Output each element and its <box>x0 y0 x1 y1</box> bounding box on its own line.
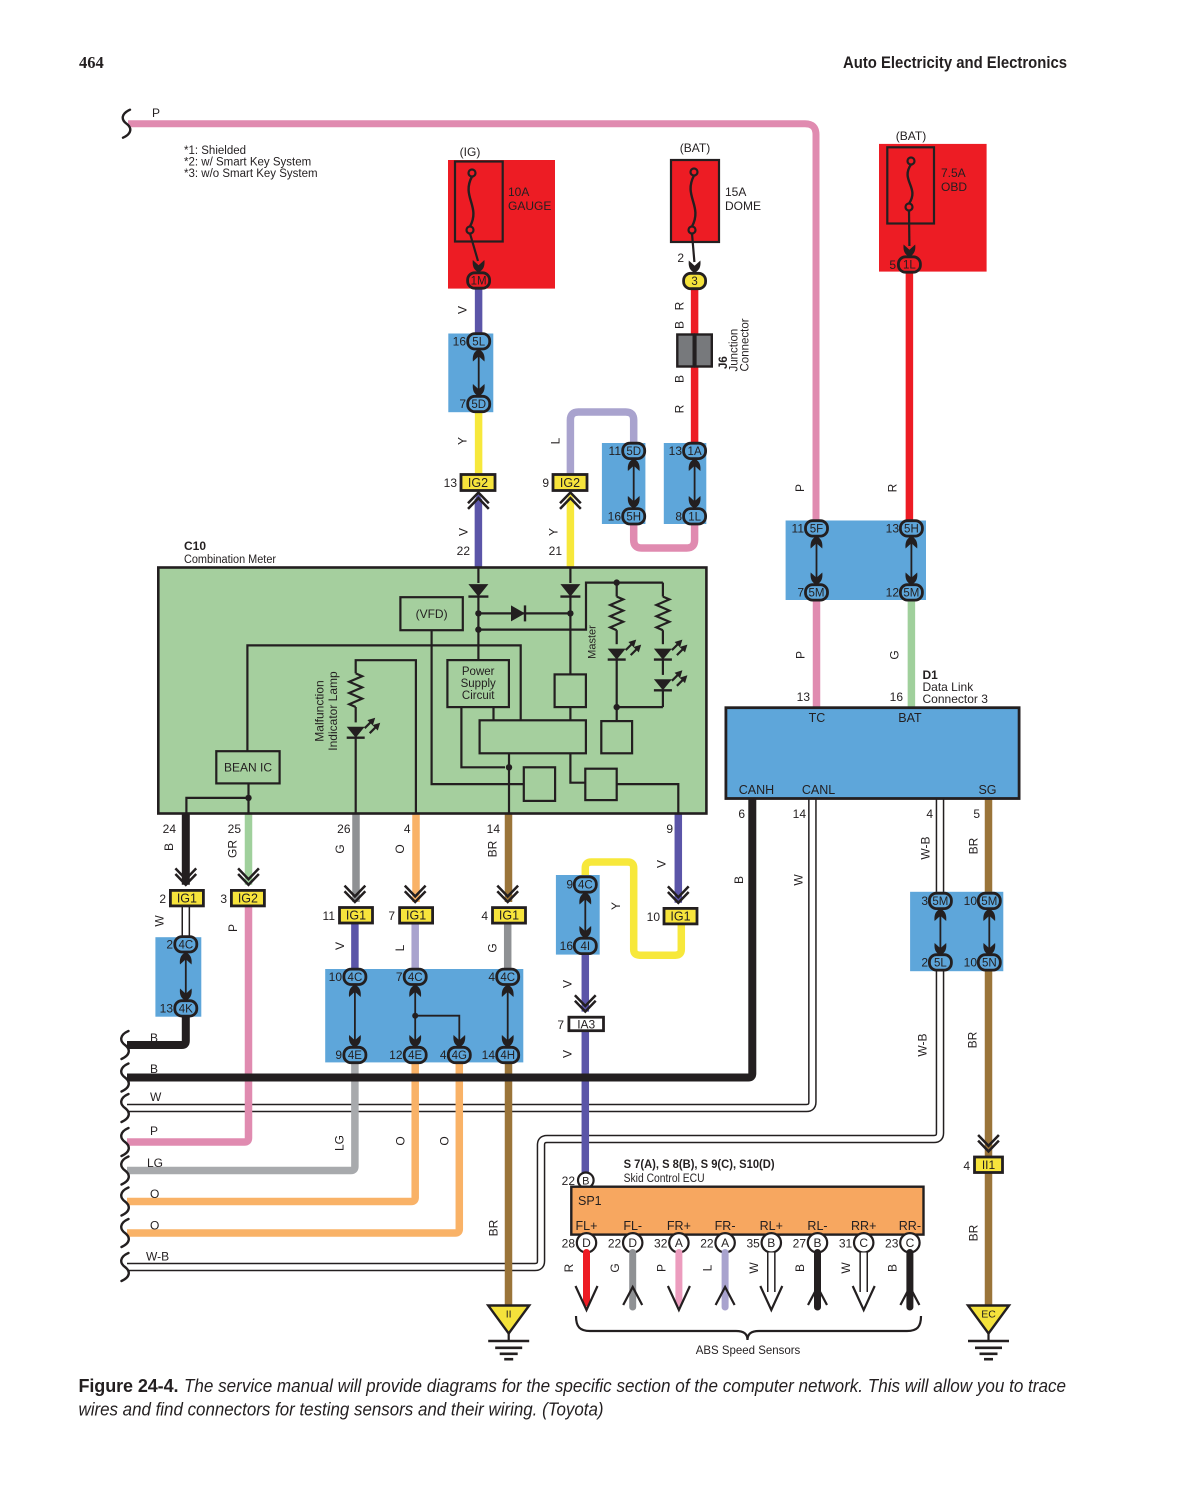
svg-text:BR: BR <box>966 1031 980 1048</box>
logic to sub block right leg <box>570 753 585 782</box>
svg-text:27: 27 <box>793 1237 807 1251</box>
node dot pin14 <box>506 764 512 770</box>
svg-text:P: P <box>226 924 240 932</box>
vfd feed wire <box>432 630 524 784</box>
ground triangle EC <box>968 1306 1009 1334</box>
svg-text:P: P <box>654 1264 668 1272</box>
svg-text:BR: BR <box>967 837 981 854</box>
svg-text:ABS Speed Sensors: ABS Speed Sensors <box>696 1343 801 1357</box>
connector oval 5L pin2 <box>929 955 951 970</box>
node dot pin22 rail upper <box>475 610 481 616</box>
svg-text:G: G <box>486 943 500 952</box>
wire BR SG to ground EC <box>985 799 993 1307</box>
svg-text:TC: TC <box>809 711 826 725</box>
svg-text:9: 9 <box>335 1048 342 1062</box>
svg-text:5D: 5D <box>626 446 641 458</box>
svg-text:26: 26 <box>337 822 351 836</box>
chevron into II1 <box>978 1135 999 1151</box>
svg-text:W-B: W-B <box>919 836 933 859</box>
wire L IG2-9 to 5D-11 <box>570 412 633 475</box>
svg-text:1M: 1M <box>471 276 487 288</box>
svg-text:5D: 5D <box>471 399 486 411</box>
chevron into IG1-2 <box>175 868 196 884</box>
mil resistor <box>349 673 362 707</box>
svg-text:(BAT): (BAT) <box>680 141 710 155</box>
svg-text:10: 10 <box>964 956 978 970</box>
svg-text:3: 3 <box>691 276 697 288</box>
psc left leg <box>461 707 505 767</box>
fuse block (BAT) 7.5A OBD <box>879 144 987 272</box>
connector box 5M-5L 5M-5N (blue) <box>910 892 1003 971</box>
junction box IG1 pin4 <box>493 908 526 924</box>
wire V IG1-11 to 4C-10 <box>351 922 359 970</box>
svg-text:BR: BR <box>967 1224 981 1241</box>
wire V IA3-7 to skid ECU B-22 <box>582 1031 590 1173</box>
connector oval 1A pin13 <box>684 443 706 458</box>
connector oval 5L pin16 <box>468 334 490 349</box>
wire V IG2-13 to meter pin 22 <box>475 499 483 568</box>
connector oval 1L pin8 <box>684 509 706 524</box>
svg-text:S 7(A), S 8(B), S 9(C), S10(D): S 7(A), S 8(B), S 9(C), S10(D) <box>624 1159 775 1171</box>
terminal arrow into 1M <box>473 260 485 273</box>
connector oval 5N pin10 <box>978 955 1000 970</box>
svg-text:Master: Master <box>587 625 599 659</box>
svg-text:11: 11 <box>792 522 805 536</box>
connector oval 5M pin12 <box>900 585 922 600</box>
junction oval 3 (yellow) <box>684 273 706 288</box>
connector oval 4K pin13 <box>175 1001 197 1016</box>
svg-text:Y: Y <box>609 902 623 910</box>
svg-text:IG2: IG2 <box>560 476 580 490</box>
svg-text:GAUGE: GAUGE <box>508 199 551 213</box>
chevron into IG1-11 <box>345 886 366 902</box>
junction box IG2 pin9 <box>553 475 587 491</box>
wire V 4I-16 to IA3-7 <box>582 953 590 1012</box>
svg-text:C: C <box>859 1236 868 1250</box>
svg-text:(BAT): (BAT) <box>896 129 926 143</box>
svg-text:B: B <box>673 321 687 329</box>
svg-text:BR: BR <box>487 1219 501 1236</box>
wire R obd fuse 1L to 5H-13 <box>906 271 914 522</box>
svg-text:3: 3 <box>220 892 227 906</box>
svg-text:V: V <box>655 860 669 868</box>
svg-text:W: W <box>792 874 806 886</box>
svg-text:5L: 5L <box>472 336 485 348</box>
svg-text:BAT: BAT <box>898 711 922 725</box>
junction box IA3 pin7 <box>569 1017 604 1030</box>
junction box IG1 pin7 <box>400 908 433 924</box>
svg-text:W-B: W-B <box>146 1250 169 1264</box>
chevron into IG1-4 <box>497 886 518 902</box>
chevron into IG2-3 <box>238 868 259 884</box>
connector oval 5M pin3 <box>929 893 951 908</box>
svg-text:2: 2 <box>166 938 173 952</box>
meter internal wire pin21 branch <box>569 568 571 584</box>
master resistor right <box>662 583 664 597</box>
svg-text:B: B <box>767 1236 775 1250</box>
chevron into IG2-9 <box>560 493 581 509</box>
svg-text:Combination Meter: Combination Meter <box>184 554 276 566</box>
psc right leg <box>492 707 494 720</box>
master LED right lower <box>654 679 672 690</box>
svg-text:7: 7 <box>396 970 403 984</box>
svg-text:IG2: IG2 <box>468 476 488 490</box>
svg-text:CANL: CANL <box>802 783 835 797</box>
svg-text:4: 4 <box>404 822 411 836</box>
connector box 5F-5M 5H-5M (blue) <box>786 521 926 601</box>
svg-text:(IG): (IG) <box>460 145 481 159</box>
connector oval 5F pin11 <box>806 521 828 536</box>
svg-text:SG: SG <box>978 783 996 797</box>
connector oval 5M pin7 <box>806 585 828 600</box>
svg-text:B: B <box>793 1264 807 1272</box>
junction box IG2 pin13 <box>461 475 495 491</box>
main logic block <box>480 720 586 753</box>
svg-text:11: 11 <box>323 909 336 923</box>
svg-text:O: O <box>150 1187 159 1201</box>
svg-text:G: G <box>333 844 347 853</box>
svg-text:Malfunction: Malfunction <box>313 680 327 741</box>
svg-text:B: B <box>162 843 176 851</box>
connector oval 4E pin12 <box>404 1047 426 1062</box>
connector oval 5H pin16 <box>623 509 645 524</box>
ground symbol II <box>488 1340 529 1343</box>
connector oval 4I pin16 <box>574 938 596 953</box>
svg-text:5H: 5H <box>626 511 641 523</box>
connector box 5D-5H (blue) <box>602 443 646 524</box>
svg-text:A: A <box>675 1236 683 1250</box>
svg-text:Supply: Supply <box>461 678 496 690</box>
node dot pin21 rail <box>567 610 573 616</box>
svg-text:R: R <box>673 301 687 310</box>
chevron into IG2-13 <box>468 493 489 509</box>
svg-text:LG: LG <box>147 1156 163 1170</box>
svg-text:RL+: RL+ <box>760 1219 783 1233</box>
svg-text:Y: Y <box>456 437 470 445</box>
svg-text:O: O <box>393 844 407 853</box>
svg-text:IA3: IA3 <box>577 1017 595 1031</box>
wire BR 4H-14 down to ground II <box>505 1061 513 1306</box>
svg-text:13: 13 <box>669 444 683 458</box>
wire P IG2-3 down to left bus <box>127 905 249 1142</box>
svg-text:23: 23 <box>885 1237 899 1251</box>
svg-text:V: V <box>333 942 347 950</box>
svg-text:24: 24 <box>163 822 177 836</box>
svg-text:P: P <box>793 484 807 492</box>
wire B bus CANH to left margin <box>127 799 752 1078</box>
svg-text:Auto Electricity and Electroni: Auto Electricity and Electronics <box>843 54 1067 72</box>
svg-text:13: 13 <box>160 1002 174 1016</box>
long rail to bean ic <box>247 645 520 751</box>
svg-text:RL-: RL- <box>807 1219 827 1233</box>
svg-text:21: 21 <box>549 544 563 558</box>
wire BR meter pin14 to IG1-4 <box>505 814 513 903</box>
svg-text:B: B <box>150 1031 158 1045</box>
svg-text:G: G <box>608 1263 622 1272</box>
connector oval 4C pin4 <box>497 969 519 984</box>
connector box 4C-4I (blue) <box>556 875 600 955</box>
connector oval 4C pin10 <box>344 969 366 984</box>
svg-text:5: 5 <box>889 258 896 272</box>
svg-text:35: 35 <box>746 1237 760 1251</box>
wire B 4K-13 down to left bus <box>127 1015 186 1045</box>
svg-text:4C: 4C <box>348 972 363 984</box>
svg-text:EC: EC <box>981 1309 996 1321</box>
ABS speed sensors brace <box>576 1316 921 1340</box>
connector oval 4C pin9 <box>574 877 596 892</box>
curl on top P feed <box>123 110 131 138</box>
wire L IG1-7 to 4C-7 <box>411 921 419 970</box>
ECU input circle B pin22 <box>578 1173 594 1189</box>
svg-text:4: 4 <box>481 909 488 923</box>
fuse block (IG) 10A GAUGE <box>448 160 555 289</box>
svg-text:13: 13 <box>797 690 811 704</box>
svg-text:Power: Power <box>462 666 495 678</box>
svg-text:4E: 4E <box>408 1050 422 1062</box>
wire V fuse 1M to 5L <box>475 288 483 335</box>
power supply circuit box <box>447 660 509 707</box>
svg-text:5M: 5M <box>981 896 997 908</box>
svg-text:7.5A: 7.5A <box>941 166 966 180</box>
svg-text:32: 32 <box>654 1237 668 1251</box>
sub block left <box>524 767 555 801</box>
svg-text:V: V <box>457 528 471 536</box>
sub block right to pin9 <box>617 784 679 813</box>
svg-text:4: 4 <box>963 1159 970 1173</box>
svg-text:1L: 1L <box>903 260 916 272</box>
svg-text:2: 2 <box>921 956 928 970</box>
svg-text:22: 22 <box>700 1237 714 1251</box>
svg-text:*2: w/ Smart Key System: *2: w/ Smart Key System <box>184 157 311 169</box>
svg-text:GR: GR <box>226 840 240 858</box>
connector box 4C-4K (blue) <box>155 937 201 1017</box>
svg-text:P: P <box>794 651 808 659</box>
meter internal wire pin22 branch <box>477 568 479 584</box>
wire W IG1-2 to 4C-2 (double line) <box>182 905 191 938</box>
svg-text:II1: II1 <box>982 1158 996 1172</box>
D1 data link connector box <box>726 708 1019 799</box>
svg-text:B: B <box>885 1264 899 1272</box>
svg-text:FL+: FL+ <box>576 1219 598 1233</box>
svg-text:16: 16 <box>560 939 574 953</box>
node dot bean output <box>245 795 251 801</box>
svg-text:R: R <box>673 404 687 413</box>
svg-text:4: 4 <box>440 1048 447 1062</box>
svg-text:RR+: RR+ <box>851 1219 876 1233</box>
bean ic output legs <box>247 783 249 813</box>
svg-text:D: D <box>628 1236 637 1250</box>
svg-text:9: 9 <box>566 878 573 892</box>
svg-text:B: B <box>150 1062 158 1076</box>
skid control ECU box SP1 (orange) <box>571 1187 923 1235</box>
svg-text:4C: 4C <box>178 939 193 951</box>
svg-text:P: P <box>152 106 160 120</box>
svg-text:5H: 5H <box>904 523 919 535</box>
svg-text:22: 22 <box>457 544 471 558</box>
junction box IG1 pin10 <box>664 908 697 924</box>
svg-text:II: II <box>506 1309 512 1321</box>
svg-text:L: L <box>549 437 563 444</box>
svg-text:10: 10 <box>964 894 978 908</box>
svg-text:B: B <box>673 375 687 383</box>
svg-text:10: 10 <box>647 910 661 924</box>
svg-text:22: 22 <box>608 1237 622 1251</box>
svg-text:5F: 5F <box>810 523 823 535</box>
svg-text:FR-: FR- <box>715 1219 736 1233</box>
svg-text:W: W <box>150 1090 162 1104</box>
svg-text:R: R <box>886 483 900 492</box>
wire P pink feed from top bus to 5F <box>128 124 816 522</box>
svg-text:DOME: DOME <box>725 199 761 213</box>
svg-text:2: 2 <box>159 892 166 906</box>
connector oval 4H pin14 <box>497 1047 519 1062</box>
svg-text:IG1: IG1 <box>670 909 690 923</box>
connector box 1A-1L (blue) <box>664 443 707 524</box>
svg-text:10A: 10A <box>508 185 529 199</box>
connector oval 4G pin4 <box>448 1047 470 1062</box>
svg-text:V: V <box>456 306 470 314</box>
link 4C-7 with branch to 4G <box>409 985 421 998</box>
svg-text:O: O <box>394 1136 408 1145</box>
master driver block <box>601 721 632 753</box>
junction connector J6 (gray) <box>677 335 693 367</box>
svg-text:LG: LG <box>333 1135 347 1151</box>
svg-text:5M: 5M <box>903 587 919 599</box>
connector oval 1L of obd fuse <box>898 257 920 272</box>
svg-text:W: W <box>747 1262 761 1274</box>
svg-text:4C: 4C <box>408 972 423 984</box>
svg-text:O: O <box>150 1219 159 1233</box>
svg-text:4I: 4I <box>581 941 591 953</box>
connector oval 5D pin11 <box>623 443 645 458</box>
wire P loop 5H-16 to 1L-8 <box>634 523 695 548</box>
svg-text:IG2: IG2 <box>238 891 258 905</box>
wire LG 4E-9 down to left bus <box>127 1061 355 1171</box>
svg-text:C10: C10 <box>184 539 206 553</box>
svg-text:16: 16 <box>890 690 904 704</box>
wire O meter pin4 to IG1-7 <box>412 814 420 903</box>
svg-text:W: W <box>839 1262 853 1274</box>
wire P 5M-7 to D1 TC <box>813 599 821 708</box>
svg-text:7: 7 <box>459 397 466 411</box>
connector box 5L-5D (blue) <box>448 334 493 413</box>
svg-text:Circuit: Circuit <box>462 690 495 702</box>
svg-text:15A: 15A <box>725 185 746 199</box>
svg-text:V: V <box>561 1050 575 1058</box>
svg-text:28: 28 <box>562 1237 576 1251</box>
svg-text:P: P <box>150 1124 158 1138</box>
svg-text:5M: 5M <box>932 896 948 908</box>
wire W-B from D1 pin4 to left bus (double line) <box>127 799 940 1268</box>
svg-text:G: G <box>888 650 902 659</box>
wire O 4E-12 down to left bus <box>127 1061 415 1202</box>
connector oval 5M pin10 <box>978 893 1000 908</box>
svg-text:L: L <box>701 1264 715 1271</box>
svg-text:Y: Y <box>547 528 561 536</box>
svg-text:4H: 4H <box>500 1050 515 1062</box>
connector oval 1M <box>468 273 490 288</box>
svg-text:R: R <box>562 1263 576 1272</box>
svg-text:7: 7 <box>557 1018 564 1032</box>
wire V meter pin9 to IG1-10 <box>675 814 683 903</box>
chevron into IA3 <box>575 995 596 1011</box>
svg-text:16: 16 <box>453 335 467 349</box>
connector oval 4E pin9 <box>344 1047 366 1062</box>
svg-text:D: D <box>582 1236 591 1250</box>
svg-text:C: C <box>906 1236 915 1250</box>
node dot pin22 rail lower <box>475 626 481 632</box>
svg-text:IG1: IG1 <box>177 891 197 905</box>
connector oval 5H pin13 <box>900 521 922 536</box>
wire Y IG2-9 to meter pin 21 <box>567 499 575 568</box>
svg-text:*3: w/o Smart Key System: *3: w/o Smart Key System <box>184 168 318 180</box>
wire Y IG1-10 loop to 4C-9 <box>585 862 681 955</box>
svg-text:3: 3 <box>921 894 928 908</box>
node dot master branch <box>614 579 620 585</box>
wire Y 5D to IG2-13 <box>475 412 483 475</box>
wire B meter pin24 to IG1-2 <box>182 814 190 885</box>
wire G 5M-12 to D1 BAT <box>908 599 916 708</box>
svg-text:5N: 5N <box>982 957 997 969</box>
junction box IG1 pin2 <box>170 890 203 906</box>
svg-text:Figure 24-4.: Figure 24-4. <box>79 1376 179 1396</box>
malfunction indicator lamp branch <box>356 660 416 813</box>
svg-text:4K: 4K <box>179 1003 193 1015</box>
svg-text:IG1: IG1 <box>499 909 519 923</box>
terminal arrow into junction oval 3 <box>689 261 701 274</box>
wire GR meter pin25 to IG2-3 <box>245 814 253 885</box>
mil LED <box>355 707 357 722</box>
svg-text:13: 13 <box>444 476 458 490</box>
svg-text:4: 4 <box>488 970 495 984</box>
svg-text:RR-: RR- <box>899 1219 921 1233</box>
fuse block (BAT) 15A DOME <box>671 160 719 242</box>
svg-text:1A: 1A <box>688 446 702 458</box>
wire G meter pin26 to IG1-11 <box>352 814 360 903</box>
ground triangle II <box>488 1306 529 1334</box>
svg-text:12: 12 <box>886 586 900 600</box>
diode on pin21 input <box>560 584 580 597</box>
master LED left <box>608 649 626 660</box>
svg-text:9: 9 <box>542 476 549 490</box>
svg-text:Indicator Lamp: Indicator Lamp <box>326 671 340 751</box>
block on pin21 rail <box>555 674 586 707</box>
svg-text:4: 4 <box>926 807 933 821</box>
svg-text:SP1: SP1 <box>578 1194 602 1208</box>
svg-text:14: 14 <box>487 822 501 836</box>
node dot master bottom <box>614 704 620 710</box>
svg-text:BR: BR <box>486 840 500 857</box>
svg-text:13: 13 <box>886 522 900 536</box>
svg-text:6: 6 <box>738 807 745 821</box>
svg-text:CANH: CANH <box>739 783 774 797</box>
svg-text:B: B <box>732 876 746 884</box>
wire R dome fuse oval3 to 1A-13 <box>691 288 699 444</box>
connector oval 5D pin7 <box>468 396 490 411</box>
svg-text:A: A <box>721 1236 729 1250</box>
cross diode between pin22 and pin21 rails <box>478 612 570 614</box>
svg-text:OBD: OBD <box>941 180 967 194</box>
svg-text:8: 8 <box>675 510 682 524</box>
svg-text:FR+: FR+ <box>667 1219 691 1233</box>
wire W bus from CANL (white, double line) <box>127 799 812 1109</box>
svg-text:7: 7 <box>797 586 804 600</box>
ground symbol EC <box>968 1340 1009 1343</box>
svg-text:5: 5 <box>973 807 980 821</box>
(VFD) box <box>400 597 462 630</box>
svg-text:The service manual will provid: The service manual will provide diagrams… <box>184 1376 1066 1396</box>
svg-text:O: O <box>438 1136 452 1145</box>
